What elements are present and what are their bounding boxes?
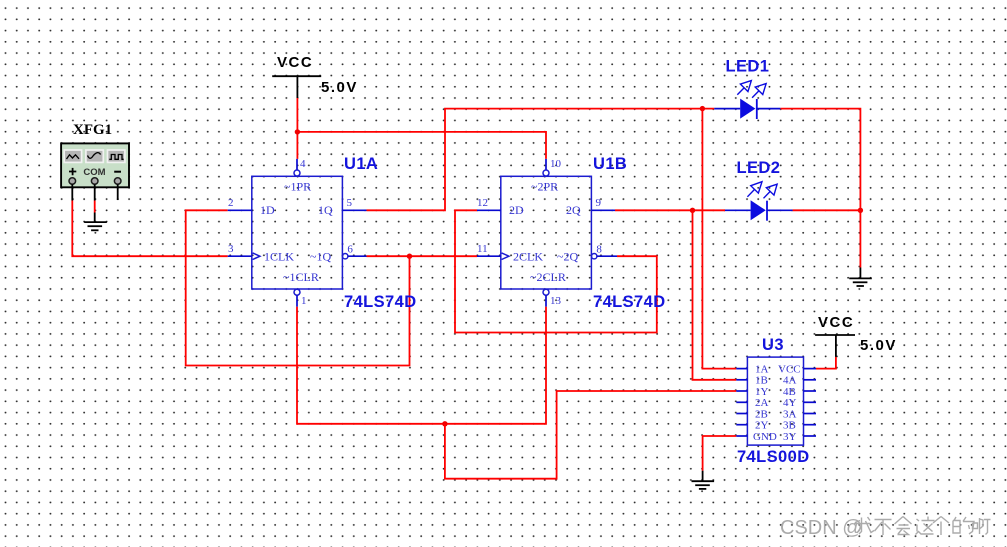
ground below XFG1 — [84, 213, 107, 231]
svg-text:6: 6 — [347, 244, 353, 256]
junction CLR node — [442, 421, 447, 426]
svg-text:12: 12 — [477, 197, 488, 209]
watermark char bu — [875, 520, 892, 536]
pin 6 stub — [343, 254, 348, 259]
NAND chip U3 — [736, 336, 816, 466]
wire LED1 node down to U3 1A — [702, 109, 736, 369]
svg-text:5.0V: 5.0V — [860, 337, 897, 354]
wire U1B 2Q to LED2 — [615, 209, 725, 211]
svg-text:~2Q: ~2Q — [557, 250, 578, 264]
function generator XFG1 — [61, 122, 129, 201]
pin 2 stub — [228, 209, 252, 211]
svg-text:LED2: LED2 — [737, 159, 781, 177]
LED2 — [725, 159, 793, 221]
watermark char ge — [933, 517, 949, 536]
LED1 — [714, 58, 780, 120]
power VCC top — [272, 54, 358, 98]
U3 left pin stubs — [736, 368, 747, 370]
wire U1A ~1Q to U1B 2CLK — [367, 255, 478, 257]
svg-text:9: 9 — [596, 197, 602, 209]
watermark char a — [973, 518, 991, 535]
wire U3 GND pin to ground — [703, 436, 737, 471]
wire CLR node to U3 1Y — [445, 391, 736, 479]
watermark CSDN — [780, 517, 991, 540]
svg-text:XFG1: XFG1 — [73, 122, 112, 138]
pin 10 stub — [545, 159, 547, 170]
svg-text:1Y: 1Y — [755, 386, 769, 398]
svg-text:~1CLR: ~1CLR — [283, 270, 319, 284]
watermark char de — [953, 517, 974, 534]
svg-text:10: 10 — [550, 158, 562, 170]
svg-text:U1A: U1A — [344, 155, 378, 173]
wire VCC junction to U1B pin10 — [297, 132, 546, 159]
svg-text:74LS74D: 74LS74D — [593, 293, 666, 311]
pin 5 stub — [342, 209, 366, 211]
flip-flop U1B — [477, 155, 666, 311]
ground below U3 — [692, 471, 715, 489]
svg-text:2A: 2A — [755, 397, 769, 409]
pin 13 stub — [543, 289, 549, 295]
svg-text:2Q: 2Q — [566, 203, 581, 217]
junction right rail LED2 — [858, 208, 863, 213]
svg-text:74LS74D: 74LS74D — [344, 293, 417, 311]
svg-text:1A: 1A — [755, 363, 769, 375]
svg-text:LED1: LED1 — [726, 58, 770, 76]
svg-text:4A: 4A — [783, 375, 797, 387]
svg-text:2Y: 2Y — [755, 420, 769, 432]
svg-text:U1B: U1B — [593, 155, 627, 173]
pin 11 stub — [477, 255, 501, 257]
svg-text:~2CLR: ~2CLR — [530, 270, 566, 284]
pin 8 stub — [592, 254, 597, 259]
junction ~1Q node — [407, 254, 412, 259]
pin 12 stub — [477, 209, 501, 211]
wire VCC2 to U3 VCC pin — [816, 357, 836, 369]
svg-text:VCC: VCC — [778, 363, 801, 375]
svg-text:13: 13 — [550, 295, 562, 307]
svg-text:4B: 4B — [783, 386, 796, 398]
pin 4 stub — [296, 159, 298, 170]
svg-text:5.0V: 5.0V — [321, 79, 358, 96]
ground right rail — [849, 268, 872, 287]
svg-text:2B: 2B — [755, 408, 768, 420]
wire 2Q node down to U3 1B — [693, 210, 737, 379]
pin stub XFG1 plus — [71, 184, 73, 200]
svg-text:4Y: 4Y — [783, 397, 797, 409]
svg-text:VCC: VCC — [818, 314, 854, 331]
svg-text:GND: GND — [753, 431, 777, 443]
pin 3 stub — [228, 255, 252, 257]
svg-text:1Q: 1Q — [318, 203, 333, 217]
svg-text:~1PR: ~1PR — [284, 180, 311, 194]
svg-text:3: 3 — [228, 243, 234, 255]
junction LED1 node — [700, 106, 705, 111]
pin stub XFG1 COM — [94, 184, 96, 200]
pin 1 stub — [294, 289, 300, 295]
svg-text:~1Q: ~1Q — [310, 250, 331, 264]
svg-text:CSDN @: CSDN @ — [780, 517, 863, 539]
svg-text:4: 4 — [300, 158, 306, 170]
svg-text:74LS00D: 74LS00D — [737, 448, 810, 466]
watermark char wo — [854, 517, 874, 534]
svg-text:2D: 2D — [509, 203, 524, 217]
power VCC right — [815, 314, 897, 357]
wire XFG1 plus to U1A 1CLK — [72, 201, 227, 257]
svg-text:1: 1 — [301, 295, 307, 307]
junction VCC node — [295, 129, 300, 134]
clock triangle 1CLK — [253, 253, 260, 260]
junction 2Q node — [690, 208, 695, 213]
wire U1A ~1CLR to U1B ~2CLR — [297, 307, 546, 424]
wire LED2 cathode to right rail — [793, 209, 861, 211]
svg-text:VCC: VCC — [277, 54, 313, 71]
wire LED1 cathode to right rail — [780, 109, 860, 268]
svg-text:3B: 3B — [783, 420, 796, 432]
wire U1A 1Q to LED1 — [367, 109, 715, 211]
flip-flop U1A — [228, 155, 417, 311]
svg-text:3Y: 3Y — [783, 431, 797, 443]
watermark char zhe — [916, 517, 935, 535]
svg-text:1B: 1B — [755, 375, 768, 387]
clock triangle 2CLK — [502, 253, 509, 260]
U3 right pin stubs — [804, 368, 817, 370]
wire VCC to U1A pin4 — [296, 98, 298, 159]
pin stub XFG1 minus — [117, 184, 119, 200]
svg-text:~2PR: ~2PR — [531, 180, 558, 194]
svg-text:COM: COM — [83, 167, 105, 178]
watermark char hui — [895, 517, 912, 535]
svg-text:8: 8 — [596, 244, 602, 256]
svg-text:5: 5 — [347, 197, 353, 209]
wire U1B ~2Q feedback to 2D — [455, 210, 657, 332]
pin 9 stub — [591, 209, 615, 211]
svg-text:2CLK: 2CLK — [513, 250, 543, 264]
svg-text:1D: 1D — [260, 203, 275, 217]
svg-text:1CLK: 1CLK — [264, 250, 294, 264]
wire XFG1 COM to ground — [94, 201, 96, 213]
svg-text:2: 2 — [228, 197, 234, 209]
svg-text:3A: 3A — [783, 408, 797, 420]
svg-text:11: 11 — [477, 243, 488, 255]
wire ~1Q feedback to 1D — [186, 210, 410, 365]
svg-text:U3: U3 — [762, 336, 784, 354]
